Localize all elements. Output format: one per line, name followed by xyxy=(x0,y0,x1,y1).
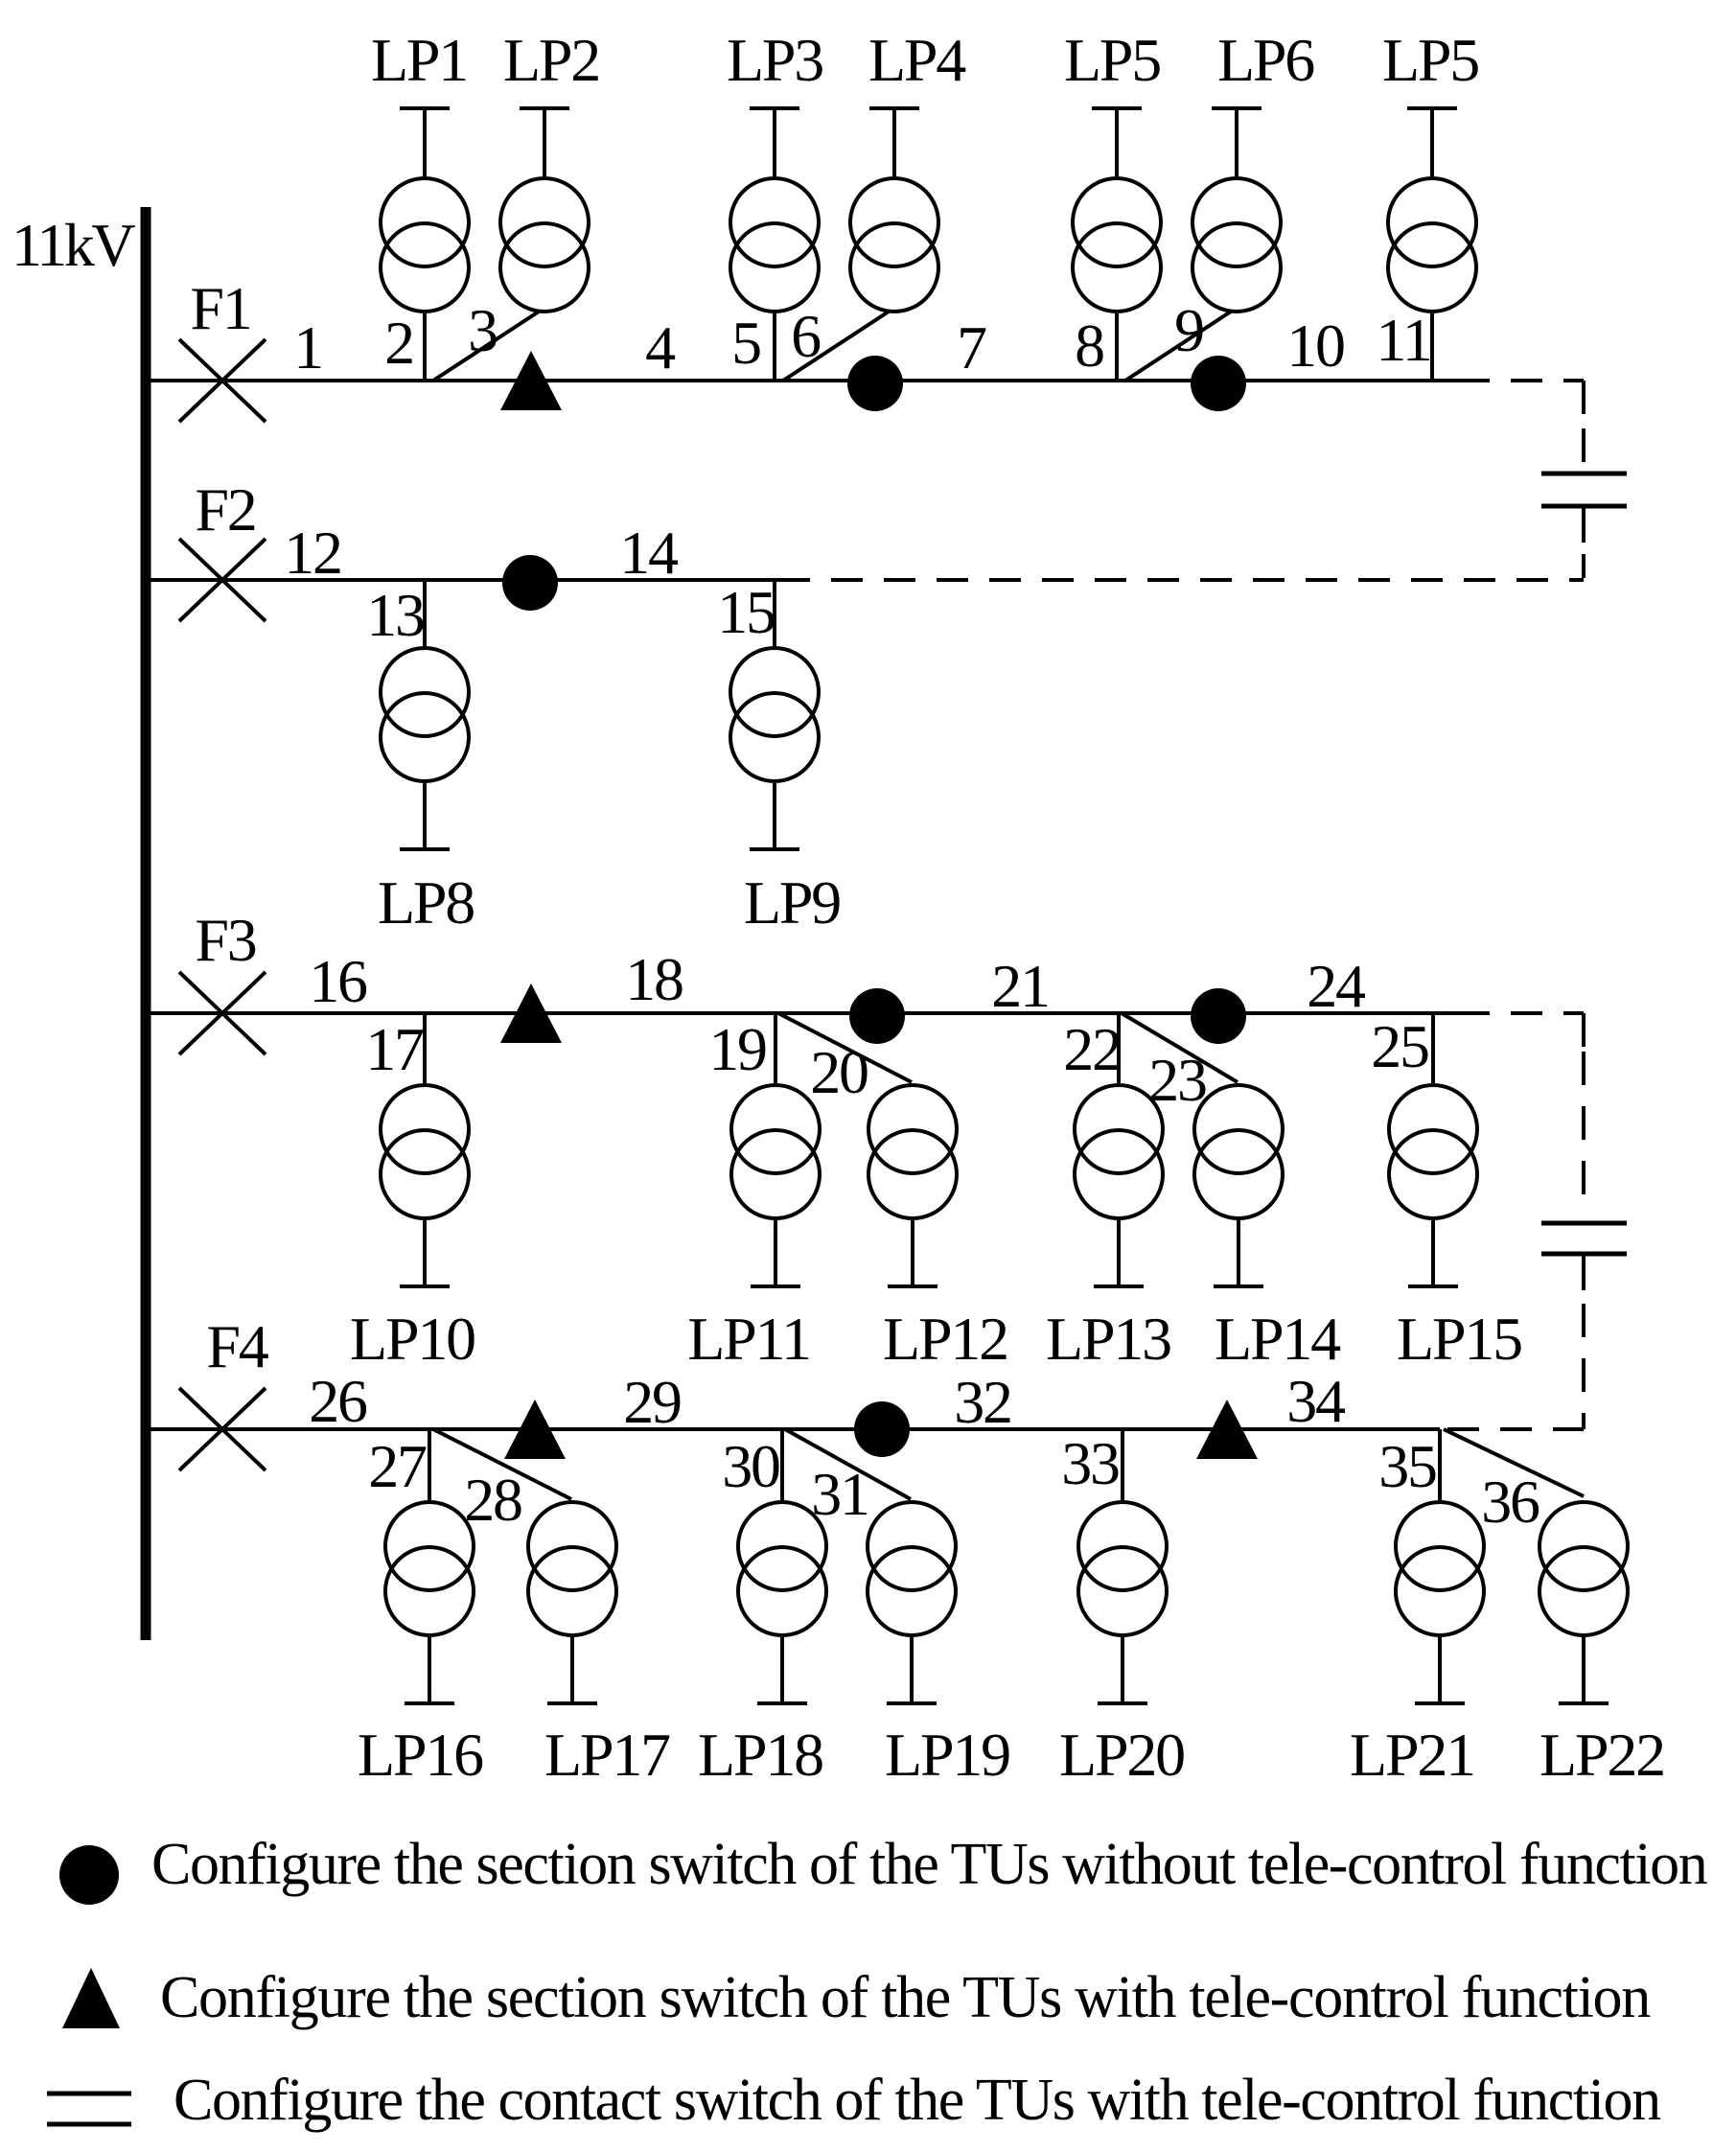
svg-text:LP13: LP13 xyxy=(1046,1305,1170,1373)
svg-text:25: 25 xyxy=(1371,1012,1428,1080)
transformer LP5 (x=1165) xyxy=(1073,178,1161,312)
contact switch T2 plate A xyxy=(1541,1221,1627,1226)
legend tele-control triangle xyxy=(62,1968,120,2028)
transformer LP17 xyxy=(528,1502,616,1635)
wire branch 31 (diagonal to LP19) xyxy=(785,1429,911,1499)
wire LP19 drop xyxy=(910,1637,914,1701)
svg-text:28: 28 xyxy=(464,1466,521,1534)
wire LP12 drop xyxy=(911,1220,914,1284)
wire LP8 drop xyxy=(423,783,427,847)
transformer LP4 (x=933) xyxy=(850,178,938,312)
svg-text:LP2: LP2 xyxy=(503,26,599,94)
terminal bar LP8 xyxy=(400,847,450,851)
svg-text:36: 36 xyxy=(1481,1468,1539,1536)
svg-text:LP3: LP3 xyxy=(727,26,822,94)
terminal bar LP19 xyxy=(887,1701,937,1705)
terminal bar LP12 xyxy=(888,1284,937,1288)
svg-text:Configure the section switch o: Configure the section switch of the TUs … xyxy=(151,1832,1708,1897)
svg-text:LP19: LP19 xyxy=(885,1721,1009,1789)
terminal bar LP1 xyxy=(400,106,450,110)
wire LP1 riser xyxy=(423,108,427,176)
svg-text:F2: F2 xyxy=(195,475,255,544)
wire LP9 drop xyxy=(773,783,776,847)
transformer LP6 (x=1290) xyxy=(1192,178,1281,312)
transformer LP18 xyxy=(738,1502,826,1635)
wire LP21 drop xyxy=(1438,1637,1442,1701)
svg-text:Configure the section switch o: Configure the section switch of the TUs … xyxy=(160,1965,1651,2030)
svg-text:LP5: LP5 xyxy=(1064,26,1160,94)
breaker F4 (X) xyxy=(179,1388,266,1470)
wire LP17 drop xyxy=(570,1637,574,1701)
wire F3 tie (dashed) xyxy=(1458,1011,1584,1015)
wire T1 stem xyxy=(1582,506,1586,543)
wire F2 tie (dashed) xyxy=(778,578,1584,582)
wire F1 tie (dashed) xyxy=(1458,379,1584,382)
svg-text:LP16: LP16 xyxy=(358,1721,483,1789)
svg-text:LP22: LP22 xyxy=(1539,1721,1664,1789)
svg-text:LP11: LP11 xyxy=(687,1305,810,1373)
svg-text:5: 5 xyxy=(731,309,760,377)
wire branch 30 (to LP18) xyxy=(780,1429,784,1500)
legend contact switch symbol xyxy=(47,2094,131,2124)
transformer LP10 xyxy=(381,1085,469,1218)
wire F4 tie (dashed) xyxy=(1447,1427,1584,1431)
wire LP5 riser xyxy=(1115,108,1119,176)
terminal bar LP2 xyxy=(520,106,569,110)
section switch S9 (no tele-control, dot) xyxy=(854,1401,910,1457)
section switch S7 (no tele-control, dot) xyxy=(1191,988,1246,1044)
wire LP16 drop xyxy=(428,1637,431,1701)
svg-text:15: 15 xyxy=(717,578,775,646)
transformer LP3 (x=808) xyxy=(730,178,819,312)
wire branch 15 (to LP9) xyxy=(773,580,776,647)
transformer LP2 (x=568) xyxy=(500,178,589,312)
wire LP15 drop xyxy=(1431,1220,1435,1284)
svg-text:LP21: LP21 xyxy=(1350,1721,1474,1789)
svg-text:13: 13 xyxy=(366,581,424,649)
transformer LP13 xyxy=(1075,1085,1163,1218)
section switch S5 (tele-control, triangle) xyxy=(500,983,562,1043)
wire branch 8 (to LP5) xyxy=(1115,313,1119,381)
legend section switch dot xyxy=(59,1845,119,1905)
terminal bar LP3 xyxy=(750,106,799,110)
svg-text:33: 33 xyxy=(1061,1429,1119,1497)
svg-text:Configure the contact switch o: Configure the contact switch of the TUs … xyxy=(174,2068,1661,2133)
svg-text:LP12: LP12 xyxy=(883,1305,1007,1373)
svg-text:29: 29 xyxy=(623,1368,681,1436)
svg-text:10: 10 xyxy=(1286,312,1344,380)
svg-text:LP14: LP14 xyxy=(1215,1305,1340,1373)
svg-text:7: 7 xyxy=(957,313,986,382)
transformer LP5 (x=1494) xyxy=(1388,178,1476,312)
svg-text:LP8: LP8 xyxy=(378,868,474,937)
wire branch 27 (to LP16) xyxy=(428,1429,431,1500)
wire LP22 drop xyxy=(1582,1637,1586,1701)
transformer LP16 xyxy=(385,1502,474,1635)
transformer LP19 xyxy=(868,1502,956,1635)
terminal bar LP5 xyxy=(1092,106,1142,110)
transformer LP22 xyxy=(1539,1502,1628,1635)
wire branch 6 (diagonal to LP4) xyxy=(783,312,889,381)
svg-text:30: 30 xyxy=(722,1432,779,1500)
svg-text:LP9: LP9 xyxy=(744,868,840,937)
transformer LP8 xyxy=(381,648,469,781)
wire branch 9 (diagonal to LP6) xyxy=(1125,312,1231,381)
wire F4 trunk xyxy=(146,1427,1440,1431)
transformer LP11 xyxy=(731,1085,820,1218)
svg-text:LP15: LP15 xyxy=(1397,1305,1521,1373)
wire tie vertical lower 2 (dashed) xyxy=(1582,1304,1586,1429)
breaker F3 (X) xyxy=(179,972,266,1054)
wire branch 28 (diagonal to LP17) xyxy=(433,1429,571,1499)
terminal bar LP5 xyxy=(1407,106,1457,110)
svg-text:F1: F1 xyxy=(190,274,250,342)
terminal bar LP21 xyxy=(1415,1701,1465,1705)
wire LP10 drop xyxy=(423,1220,427,1284)
wire LP20 drop xyxy=(1121,1637,1124,1701)
11kV bus bar xyxy=(141,207,151,1640)
wire LP2 riser xyxy=(543,108,546,176)
terminal bar LP14 xyxy=(1214,1284,1263,1288)
svg-text:32: 32 xyxy=(954,1368,1011,1436)
terminal bar LP22 xyxy=(1559,1701,1609,1705)
svg-text:LP5: LP5 xyxy=(1382,26,1478,94)
wire tie vertical lower (dashed) xyxy=(1582,554,1586,578)
wire LP3 riser xyxy=(773,108,776,176)
wire LP14 drop xyxy=(1237,1220,1240,1284)
transformer LP21 xyxy=(1396,1502,1484,1635)
wire branch 17 (to LP10) xyxy=(423,1013,427,1083)
transformer LP9 xyxy=(730,648,819,781)
svg-text:21: 21 xyxy=(991,952,1049,1020)
wire branch 11 (to LP7) xyxy=(1430,313,1434,381)
wire branch 23 (diagonal to LP14) xyxy=(1122,1013,1238,1082)
wire LP13 drop xyxy=(1117,1220,1121,1284)
svg-text:19: 19 xyxy=(708,1015,766,1083)
terminal bar LP9 xyxy=(750,847,799,851)
wire branch 22 (to LP13) xyxy=(1117,1013,1121,1083)
svg-text:22: 22 xyxy=(1063,1015,1121,1083)
svg-text:F3: F3 xyxy=(195,906,255,974)
svg-text:LP17: LP17 xyxy=(544,1721,670,1789)
svg-text:LP18: LP18 xyxy=(698,1721,822,1789)
wire T2 stem xyxy=(1582,1254,1586,1290)
contact switch T1 plate A xyxy=(1541,472,1627,476)
terminal bar LP10 xyxy=(400,1284,450,1288)
svg-text:18: 18 xyxy=(625,945,683,1013)
svg-text:17: 17 xyxy=(365,1015,424,1083)
svg-text:2: 2 xyxy=(384,309,413,377)
wire branch 5 (to LP3) xyxy=(773,313,776,381)
svg-text:20: 20 xyxy=(810,1038,868,1106)
svg-text:11: 11 xyxy=(1376,306,1430,374)
svg-text:14: 14 xyxy=(619,519,678,587)
wire F1 trunk xyxy=(146,379,1458,382)
contact switch T1 plate B xyxy=(1541,504,1627,509)
wire branch 3 (diagonal to LP2) xyxy=(433,312,539,381)
section switch S8 (tele-control, triangle) xyxy=(504,1400,566,1459)
wire F3 trunk xyxy=(146,1011,1458,1015)
svg-text:F4: F4 xyxy=(206,1312,267,1380)
svg-text:LP6: LP6 xyxy=(1217,26,1314,94)
wire tie vertical upper (dashed) xyxy=(1582,428,1586,462)
svg-text:27: 27 xyxy=(368,1432,427,1500)
section switch S4 (no tele-control, dot) xyxy=(502,555,558,611)
contact switch T2 plate B xyxy=(1541,1252,1627,1257)
wire branch 36 (diagonal to LP22) xyxy=(1444,1429,1584,1496)
svg-text:24: 24 xyxy=(1307,952,1365,1020)
wire branch 19 (to LP11) xyxy=(774,1013,777,1083)
transformer LP14 xyxy=(1194,1085,1283,1218)
wire F2 trunk xyxy=(146,578,778,582)
svg-text:23: 23 xyxy=(1148,1046,1206,1114)
svg-text:1: 1 xyxy=(293,313,322,382)
terminal bar LP4 xyxy=(869,106,919,110)
wire LP11 drop xyxy=(774,1220,777,1284)
transformer LP20 xyxy=(1078,1502,1167,1635)
wire tie corner F1 (elbow) xyxy=(1582,381,1586,414)
terminal bar LP17 xyxy=(547,1701,597,1705)
wire branch 20 (diagonal to LP12) xyxy=(778,1013,912,1082)
svg-text:35: 35 xyxy=(1378,1432,1436,1500)
transformer LP12 xyxy=(868,1085,957,1218)
wire LP6 riser xyxy=(1235,108,1238,176)
wire LP18 drop xyxy=(780,1637,784,1701)
section switch S2 (no tele-control, dot) xyxy=(847,356,903,411)
transformer LP1 (x=443) xyxy=(381,178,469,312)
terminal bar LP16 xyxy=(405,1701,454,1705)
wire branch 33 (to LP20) xyxy=(1121,1429,1124,1500)
terminal bar LP15 xyxy=(1408,1284,1458,1288)
terminal bar LP20 xyxy=(1098,1701,1147,1705)
wire branch 25 (to LP15) xyxy=(1431,1013,1435,1083)
svg-text:34: 34 xyxy=(1286,1367,1345,1435)
svg-text:16: 16 xyxy=(309,947,367,1015)
wire branch 35 (to LP21) xyxy=(1438,1429,1442,1500)
svg-text:LP10: LP10 xyxy=(350,1305,475,1373)
wire LP4 riser xyxy=(892,108,896,176)
svg-text:4: 4 xyxy=(645,313,675,382)
section switch S10 (tele-control, triangle) xyxy=(1196,1400,1258,1459)
wire tie vertical upper 2 (dashed) xyxy=(1582,1052,1586,1194)
breaker F1 (X) xyxy=(179,339,266,422)
svg-text:8: 8 xyxy=(1075,312,1103,380)
svg-text:12: 12 xyxy=(284,519,341,587)
section switch S1 (tele-control, triangle) xyxy=(500,351,562,410)
wire tie corner F3 (elbow) xyxy=(1582,1013,1586,1047)
transformer LP15 xyxy=(1389,1085,1477,1218)
terminal bar LP11 xyxy=(751,1284,800,1288)
wire branch 2 (to LP1) xyxy=(423,313,427,381)
svg-text:LP1: LP1 xyxy=(371,26,467,94)
section switch S6 (no tele-control, dot) xyxy=(849,988,905,1044)
terminal bar LP13 xyxy=(1094,1284,1144,1288)
svg-text:LP4: LP4 xyxy=(868,26,965,94)
breaker F2 (X) xyxy=(179,539,266,621)
svg-text:LP20: LP20 xyxy=(1059,1721,1184,1789)
svg-text:11kV: 11kV xyxy=(12,211,135,279)
wire branch 13 (to LP8) xyxy=(423,580,427,647)
section switch S3 (no tele-control, dot) xyxy=(1191,356,1246,411)
wire LP5 riser xyxy=(1430,108,1434,176)
svg-text:26: 26 xyxy=(309,1367,367,1435)
terminal bar LP6 xyxy=(1212,106,1261,110)
terminal bar LP18 xyxy=(757,1701,807,1705)
